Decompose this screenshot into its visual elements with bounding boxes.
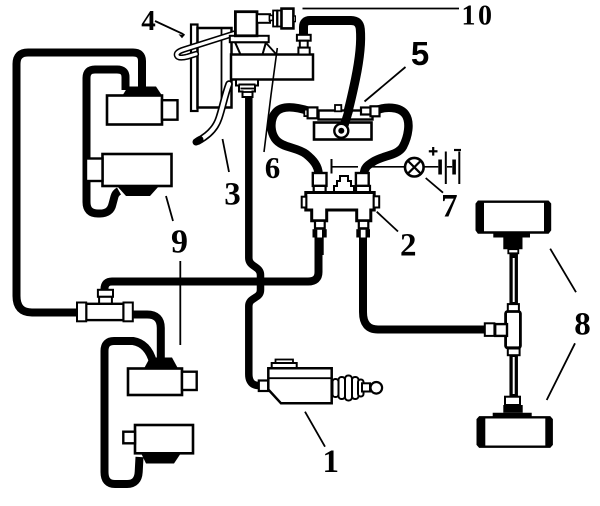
hydraulic actuator 1 [259, 360, 382, 404]
wheel cylinder 2 (front left lower) [86, 154, 172, 186]
pointer line for label 4 [155, 21, 185, 35]
svg-text:8: 8 [574, 307, 591, 343]
ribbed filter cap (item 10) [273, 11, 277, 27]
node: connector trapezoid under wheel cylinder 4 [141, 453, 181, 464]
svg-text:3: 3 [224, 177, 241, 213]
pointer line for label 10 [303, 8, 460, 10]
pointer lines for label 9 [166, 196, 173, 221]
outlet fitting on top right [297, 35, 311, 41]
svg-text:9: 9 [171, 224, 188, 261]
wheel cylinder 4 (rear left lower) [123, 425, 193, 453]
right brake chamber 8 upper [477, 202, 550, 254]
pressure regulator valve 5 [304, 105, 379, 140]
svg-text:7: 7 [441, 189, 458, 225]
reservoir filler [235, 42, 266, 54]
pointer line for label 6 [264, 48, 277, 152]
svg-text:1: 1 [323, 444, 340, 480]
bellows under master cylinder [236, 80, 258, 98]
pointer line for label 7 [426, 178, 443, 193]
bent tube near bracket (item 4 area) [177, 31, 244, 58]
pointer line for label 2 [377, 212, 398, 232]
wire: hose A front-left circuit (top loop) [17, 53, 143, 313]
wire: hose from master cylinder fitting to valve 5 [304, 21, 361, 127]
svg-text:4: 4 [141, 5, 156, 37]
solenoid on top [235, 12, 257, 36]
master cylinder body [231, 55, 313, 80]
wire: left S hose valve 5 to valve 2 [271, 107, 318, 174]
booster bracket plate [191, 25, 198, 112]
pointer line for label 5 [365, 67, 406, 102]
node: connector trapezoid on top of wheel cylinder 3 [144, 358, 178, 369]
right brake chamber 8 lower [478, 397, 552, 447]
pointer line for label 1 [305, 412, 325, 447]
wire: hose B to second wheel cylinder (C loop) [87, 70, 126, 214]
wire: pipe from master cylinder down to actuator 1 (with jog over hose) [249, 95, 263, 386]
pointer lines for label 8 [550, 249, 576, 293]
wire: right vertical pipe upper (8 circuit) [509, 251, 518, 307]
flexible hose 3 [198, 84, 229, 141]
wheel cylinder 3 (rear left upper) [128, 369, 197, 396]
warning lamp and battery 7 [332, 147, 462, 184]
distribution valve 2 [302, 173, 380, 255]
svg-text:10: 10 [462, 1, 495, 32]
svg-text:6: 6 [265, 150, 281, 185]
wire: main horizontal hose from T nipple to valve 2 left port [105, 236, 319, 294]
pointer line for label 3 [223, 139, 230, 172]
svg-text:5: 5 [411, 35, 429, 72]
node: connector trapezoid under wheel cylinder 2 [117, 186, 159, 196]
wire: right vertical pipe lower [509, 351, 518, 400]
node: connector trapezoid on top of wheel cylinder 1 [123, 87, 163, 96]
booster body [198, 28, 232, 108]
wire: hose from valve 2 right port to right T-junction [363, 236, 486, 330]
wire: hose from left T-junction to third cylinder [128, 315, 161, 362]
wire: right S hose valve 5 to valve 2 [364, 108, 408, 174]
right T-junction with collars [485, 304, 521, 355]
wire: rear-left C loop hose to lower cylinders [105, 341, 154, 484]
left T-junction [77, 290, 133, 322]
master cylinder and booster assembly [177, 9, 313, 142]
svg-text:2: 2 [400, 228, 417, 264]
wheel cylinder 1 (front left upper) [107, 96, 178, 125]
